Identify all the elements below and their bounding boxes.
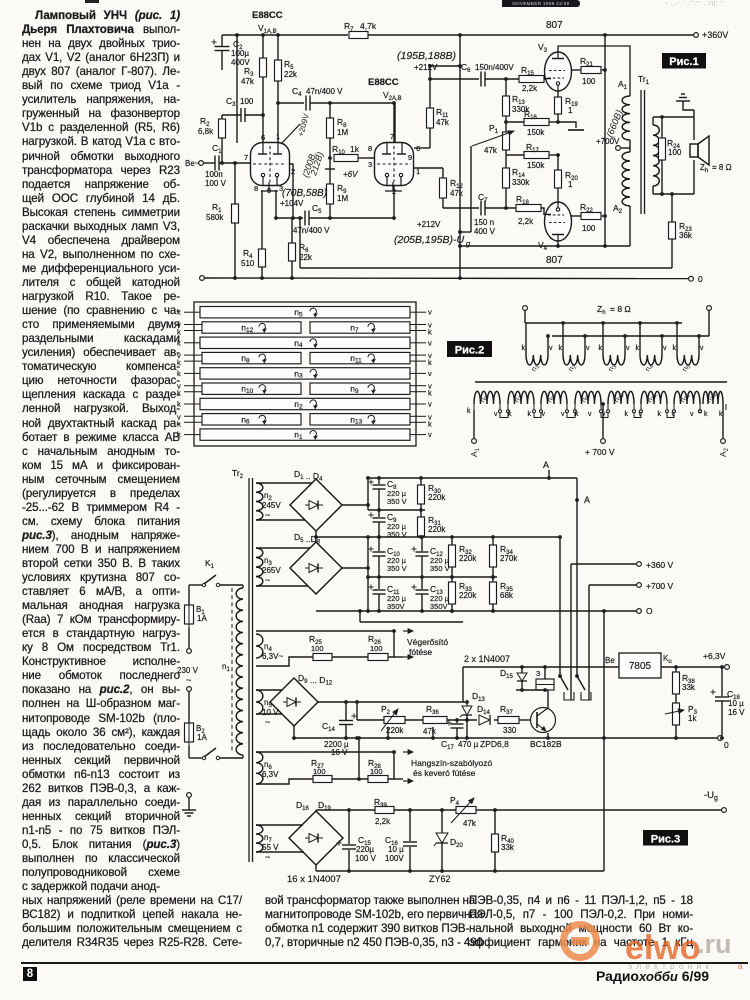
svg-text:электроник: электроник	[628, 961, 713, 971]
svg-text:а: а	[738, 961, 743, 971]
svg-text:.ru: .ru	[697, 929, 732, 959]
